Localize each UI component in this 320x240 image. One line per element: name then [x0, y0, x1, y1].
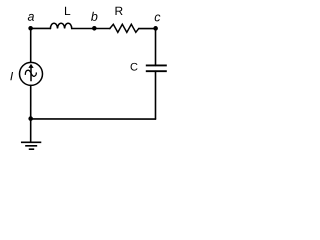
svg-text:R: R	[114, 4, 123, 18]
svg-text:a: a	[28, 10, 35, 24]
bottom wire	[31, 118, 156, 120]
node c	[153, 26, 158, 31]
wire a down to current source	[30, 28, 32, 62]
capacitor C plates	[146, 65, 167, 71]
wire L to b to R	[72, 27, 110, 29]
node b	[92, 26, 97, 31]
ground stem	[30, 119, 32, 142]
svg-text:b: b	[91, 10, 98, 24]
current source arrow shaft	[30, 67, 32, 82]
svg-text:L: L	[64, 4, 71, 18]
wire capacitor to bottom	[154, 71, 156, 119]
ground	[21, 142, 41, 149]
wire a to L	[31, 27, 51, 29]
junction node at bottom	[28, 116, 33, 121]
current source I circle	[19, 62, 42, 85]
inductor L	[50, 23, 71, 28]
wire current source to bottom junction	[30, 85, 32, 119]
resistor R	[110, 24, 139, 32]
svg-text:I: I	[10, 69, 14, 83]
node a	[28, 26, 33, 31]
wire c down to capacitor	[155, 29, 157, 66]
current source arrow head	[28, 64, 33, 68]
current source AC squiggle	[25, 70, 36, 76]
wire R to c	[139, 28, 156, 30]
svg-text:c: c	[154, 10, 161, 24]
svg-text:C: C	[130, 62, 138, 74]
